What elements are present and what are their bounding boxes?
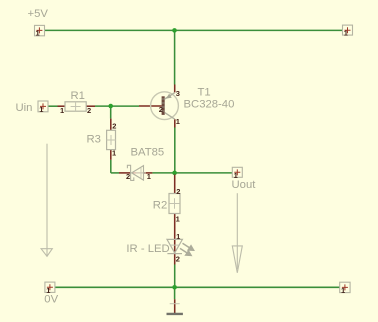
svg-text:1: 1 xyxy=(112,149,116,158)
svg-text:1: 1 xyxy=(176,117,180,126)
svg-text:+5V: +5V xyxy=(28,8,49,20)
svg-text:2: 2 xyxy=(159,105,163,114)
svg-text:1: 1 xyxy=(176,215,180,224)
svg-text:1: 1 xyxy=(39,105,43,114)
svg-text:1: 1 xyxy=(234,171,238,180)
svg-text:1: 1 xyxy=(46,286,50,295)
svg-text:IR - LED: IR - LED xyxy=(126,243,169,255)
svg-text:2: 2 xyxy=(176,254,180,263)
svg-text:1: 1 xyxy=(176,232,180,241)
svg-text:2: 2 xyxy=(112,121,116,130)
svg-text:1: 1 xyxy=(344,28,348,37)
svg-text:0V: 0V xyxy=(44,294,58,306)
svg-text:1: 1 xyxy=(60,106,64,115)
svg-text:R2: R2 xyxy=(153,199,167,211)
svg-text:R1: R1 xyxy=(71,90,85,102)
svg-text:1: 1 xyxy=(147,172,151,181)
svg-text:2: 2 xyxy=(126,172,130,181)
svg-text:1: 1 xyxy=(341,286,345,295)
svg-text:3: 3 xyxy=(176,89,180,98)
svg-text:T1: T1 xyxy=(198,86,211,98)
svg-text:Uin: Uin xyxy=(16,102,33,114)
svg-text:BAT85: BAT85 xyxy=(131,147,165,159)
svg-text:1: 1 xyxy=(36,29,40,38)
svg-text:R3: R3 xyxy=(87,134,101,146)
svg-text:BC328-40: BC328-40 xyxy=(184,98,235,110)
svg-text:2: 2 xyxy=(87,106,91,115)
svg-text:Uout: Uout xyxy=(232,179,257,191)
svg-text:2: 2 xyxy=(176,187,180,196)
